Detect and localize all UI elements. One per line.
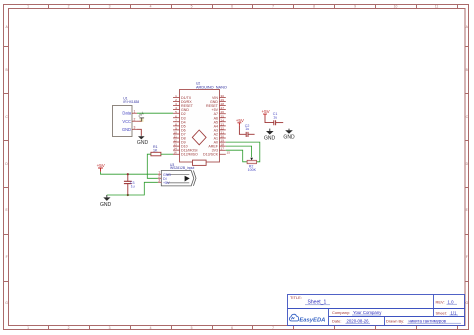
svg-text:D0/RX: D0/RX [181,100,192,104]
svg-text:100K: 100K [248,168,257,172]
wire R1 right to D12/MISO [161,153,173,155]
svg-text:VIN: VIN [212,96,218,100]
svg-text:IR HX1838: IR HX1838 [123,100,139,104]
svg-text:WS2812B_input: WS2812B_input [170,166,194,170]
connector U3 WS2812B input [158,163,196,186]
bottom ticks [49,326,458,330]
svg-text:GND: GND [100,202,112,208]
EasyEDA logo [289,314,325,323]
svg-text:+5V: +5V [163,181,170,185]
wire AREF to pot wiper [226,146,252,157]
wire R1 left down to U3 DI [147,154,158,178]
svg-text:F: F [6,255,8,259]
right ticks [465,47,469,282]
svg-text:6: 6 [175,114,177,118]
svg-text:GND: GND [163,173,171,177]
capacitor C3 [124,174,135,195]
svg-text:3: 3 [134,126,136,130]
svg-text:12: 12 [173,139,177,143]
svg-text:11: 11 [174,135,177,139]
svg-text:13: 13 [173,143,177,147]
svg-text:2: 2 [134,118,136,122]
U3 pin numbers [158,171,160,183]
ground symbol left [100,195,112,208]
svg-text:1: 1 [134,110,136,114]
svg-text:1: 1 [175,94,177,98]
svg-text:D6: D6 [181,128,186,132]
svg-text:8: 8 [313,4,315,8]
title block frame [288,295,465,326]
svg-text:9: 9 [354,4,356,8]
svg-text:RESET: RESET [181,104,194,108]
svg-text:A4: A4 [214,124,218,128]
svg-text:никита гантимуров: никита гантимуров [409,318,447,323]
svg-text:1K: 1K [153,148,158,152]
svg-text:Drawn By:: Drawn By: [386,318,404,323]
svg-text:DI: DI [163,177,167,181]
svg-text:AREF: AREF [208,145,218,149]
svg-text:4: 4 [175,106,177,110]
svg-text:7: 7 [175,118,177,122]
svg-text:6: 6 [231,4,233,8]
component U1 IR HX1838 [113,96,140,136]
svg-text:GND: GND [122,127,131,132]
svg-text:GND: GND [210,100,218,104]
svg-text:2020-08-26: 2020-08-26 [347,318,370,323]
svg-text:1.0: 1.0 [448,299,455,304]
title block field underlines [305,304,461,323]
wire gnd rail to U3 +5V pin [107,182,158,195]
svg-text:19: 19 [221,139,225,143]
U3 pin names [163,173,171,185]
svg-text:D5: D5 [181,124,186,128]
+5V power symbol left [97,163,106,172]
svg-text:Data: Data [122,111,131,116]
svg-text:14: 14 [173,147,177,151]
svg-text:D2: D2 [181,112,186,116]
svg-text:15: 15 [227,151,231,155]
svg-text:1u: 1u [245,127,249,131]
arduino pin numbers left [173,94,177,155]
svg-text:29: 29 [221,98,225,102]
svg-text:A1: A1 [214,137,218,141]
wire 3V3 to pot left [226,150,247,162]
svg-text:2: 2 [68,4,70,8]
svg-text:D3: D3 [181,116,186,120]
svg-text:17: 17 [221,147,225,151]
svg-text:26: 26 [221,110,225,114]
U3 pin stubs [158,174,161,182]
svg-text:30: 30 [221,94,225,98]
title block values (blue) [308,299,458,323]
svg-text:+5V: +5V [97,163,106,168]
svg-text:+5V: +5V [236,118,245,123]
svg-text:TITLE:: TITLE: [290,295,302,300]
svg-text:ARDUINO_NANO: ARDUINO_NANO [196,85,227,89]
svg-text:8: 8 [175,122,177,126]
svg-text:Sheet_1: Sheet_1 [308,299,327,305]
+5V symbol for C1 [262,109,271,117]
svg-text:F: F [466,255,468,259]
svg-text:1u: 1u [273,116,277,120]
svg-text:6: 6 [231,326,233,330]
svg-text:2: 2 [68,326,70,330]
svg-text:5: 5 [191,326,193,330]
svg-text:4: 4 [150,326,152,330]
svg-text:A2: A2 [214,132,218,136]
svg-text:D11/MOSI: D11/MOSI [181,149,198,153]
svg-text:EasyEDA: EasyEDA [299,318,325,324]
top ticks [49,5,458,9]
svg-text:21: 21 [221,130,225,134]
svg-text:A0: A0 [214,141,218,145]
svg-text:23: 23 [221,122,225,126]
junction bottom of C3 [127,194,129,196]
diamond decoration [192,130,206,145]
svg-text:Sheet:: Sheet: [436,310,447,315]
wire +5V to U3 GND pin [101,172,158,175]
svg-text:1u: 1u [131,184,135,188]
svg-text:4: 4 [150,4,152,8]
capacitor C2 [239,124,254,137]
arduino pin numbers right [221,94,231,155]
svg-text:18: 18 [221,143,225,147]
resistor R1 [151,145,161,156]
junction top of C3 [127,173,129,175]
svg-text:VCC: VCC [122,119,131,124]
svg-text:A5: A5 [214,120,218,124]
svg-text:A3: A3 [214,128,218,132]
svg-text:1/1: 1/1 [451,310,458,315]
U1 pin names [122,111,132,133]
svg-text:20: 20 [221,135,225,139]
svg-text:9: 9 [175,126,177,130]
ground below U1 [137,136,149,146]
svg-text:3: 3 [109,4,111,8]
svg-text:Date:: Date: [332,318,341,323]
svg-text:A7: A7 [214,112,218,116]
svg-text:GND: GND [181,108,189,112]
svg-text:D13/SCK: D13/SCK [203,153,219,157]
title block labels (red) [290,295,447,324]
capacitor C1 [265,112,283,125]
wire A0 to pot right [226,142,260,162]
svg-text:G: G [465,301,468,305]
svg-text:D8: D8 [181,137,186,141]
svg-text:D9: D9 [181,141,186,145]
svg-text:RESET: RESET [206,104,219,108]
svg-text:+5V: +5V [262,109,271,114]
svg-text:3V3: 3V3 [212,149,218,153]
svg-text:10: 10 [394,4,398,8]
svg-text:D12/MISO: D12/MISO [181,153,198,157]
svg-text:Company:: Company: [332,310,350,315]
svg-text:GND: GND [283,135,295,141]
usb notch [193,160,207,165]
svg-text:3: 3 [158,179,160,183]
svg-text:10: 10 [173,130,177,134]
svg-text:1: 1 [158,171,160,175]
svg-text:Your Company: Your Company [353,310,382,315]
+5V symbol for C2 [236,118,245,126]
arduino pin names left [181,96,198,157]
svg-text:D1/TX: D1/TX [181,96,192,100]
svg-text:U2: U2 [196,81,200,85]
svg-text:27: 27 [221,106,225,110]
svg-text:+5V: +5V [212,108,219,112]
svg-text:24: 24 [221,118,225,122]
svg-text:D4: D4 [181,120,186,124]
svg-text:3: 3 [175,102,177,106]
svg-text:1: 1 [27,4,29,8]
svg-text:REV:: REV: [436,299,445,304]
arduino pin stubs left [173,98,180,155]
svg-text:2: 2 [175,98,177,102]
svg-text:GND: GND [264,135,276,141]
wire U1 Data to Arduino D2 [137,112,173,114]
svg-text:11: 11 [435,4,439,8]
svg-text:5: 5 [175,110,177,114]
svg-text:25: 25 [221,114,225,118]
U1 pin stubs [132,113,137,129]
svg-text:A6: A6 [214,116,218,120]
arduino pin names right [203,96,219,157]
svg-text:28: 28 [221,102,225,106]
svg-text:2: 2 [158,175,160,179]
svg-text:1: 1 [27,326,29,330]
svg-text:7: 7 [272,4,274,8]
arduino pin stubs right [219,98,226,155]
left ticks [4,47,9,282]
svg-text:GND: GND [137,140,149,146]
+5V flag at U1 VCC [137,111,145,122]
ground symbol for C2 [264,129,276,142]
svg-text:5: 5 [191,4,193,8]
svg-text:G: G [5,301,8,305]
component U2 ARDUINO NANO [180,81,227,165]
svg-text:22: 22 [221,126,225,130]
svg-text:16: 16 [173,151,177,155]
potentiometer R2 body [247,158,256,172]
U1 pin numbers [134,110,136,130]
wire U1 GND to ground [137,129,141,136]
ground symbol for C1 [283,129,295,141]
svg-text:7: 7 [272,326,274,330]
svg-text:D10: D10 [181,145,188,149]
svg-text:D7: D7 [181,132,186,136]
svg-text:3: 3 [109,326,111,330]
